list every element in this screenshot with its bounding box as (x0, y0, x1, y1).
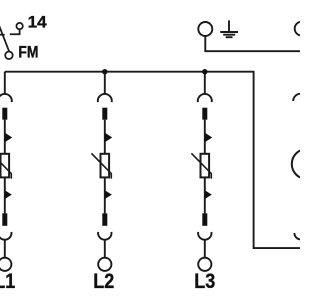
svg-text:14: 14 (28, 14, 48, 32)
svg-text:L3: L3 (194, 270, 215, 293)
svg-text:FM: FM (18, 44, 38, 62)
svg-text:L1: L1 (0, 270, 16, 293)
svg-text:L2: L2 (93, 270, 114, 293)
